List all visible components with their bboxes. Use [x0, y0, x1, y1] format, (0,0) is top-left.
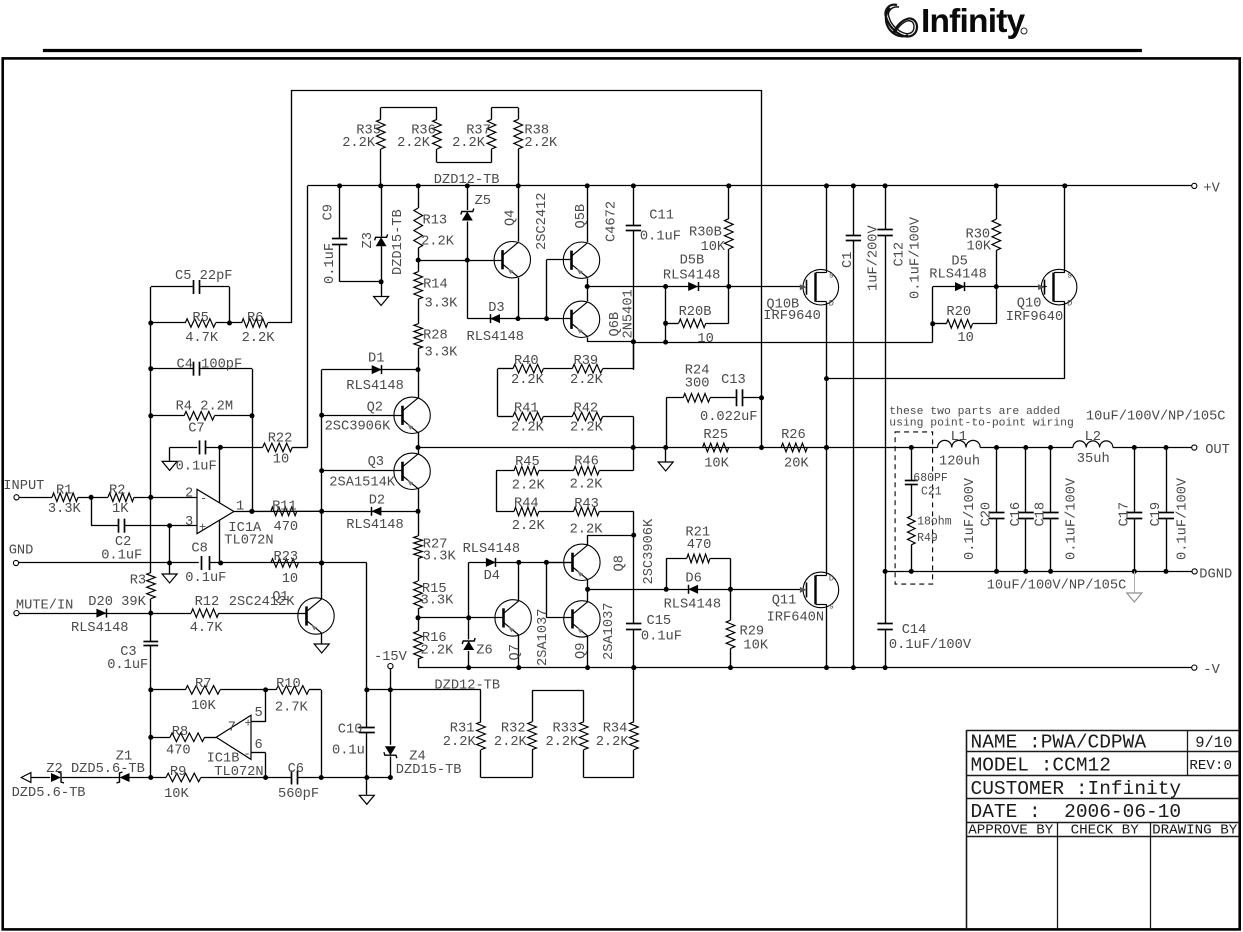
svg-text:C12: C12: [893, 242, 908, 267]
svg-text:R7: R7: [195, 677, 211, 692]
svg-text:3: 3: [185, 515, 193, 530]
svg-text:L1: L1: [951, 430, 967, 445]
svg-text:C14: C14: [902, 623, 927, 638]
svg-text:2.2K: 2.2K: [512, 519, 546, 534]
svg-text:C13: C13: [721, 373, 746, 388]
svg-text:0.1uF/100V: 0.1uF/100V: [963, 477, 978, 560]
svg-text:NAME :PWA/CDPWA: NAME :PWA/CDPWA: [971, 731, 1147, 753]
svg-text:C20: C20: [980, 502, 995, 527]
svg-text:RLS4148: RLS4148: [929, 268, 987, 283]
svg-text:+: +: [245, 717, 252, 731]
svg-text:C18: C18: [1034, 502, 1049, 527]
svg-text:120uh: 120uh: [939, 455, 980, 470]
svg-text:Q2: Q2: [367, 401, 383, 416]
svg-text:-15V: -15V: [374, 650, 408, 665]
svg-text:560pF: 560pF: [278, 787, 319, 802]
svg-text:3.3K: 3.3K: [421, 593, 455, 608]
svg-text:Q4: Q4: [504, 210, 519, 226]
svg-text:R1: R1: [56, 484, 72, 499]
svg-text:35uh: 35uh: [1077, 452, 1110, 467]
svg-text:0.1uF: 0.1uF: [107, 658, 148, 673]
svg-text:D6: D6: [685, 572, 701, 587]
svg-text:2SC3906K: 2SC3906K: [642, 518, 657, 584]
svg-text:R20: R20: [946, 305, 971, 320]
svg-text:+: +: [199, 521, 206, 535]
svg-text:C6: C6: [288, 762, 304, 777]
svg-text:C10: C10: [338, 722, 363, 737]
svg-text:RLS4148: RLS4148: [663, 268, 721, 283]
svg-text:680PF: 680PF: [913, 472, 948, 485]
svg-text:0.1uF: 0.1uF: [640, 230, 681, 245]
svg-text:C15: C15: [647, 614, 672, 629]
svg-text:Q11: Q11: [772, 594, 797, 609]
svg-text:Q9: Q9: [574, 643, 589, 659]
svg-text:1: 1: [236, 500, 244, 515]
svg-text:2.2K: 2.2K: [512, 479, 546, 494]
svg-text:-V: -V: [1203, 663, 1220, 678]
svg-text:D5B: D5B: [680, 254, 705, 269]
svg-text:10uF/100V/NP/105C: 10uF/100V/NP/105C: [987, 579, 1127, 594]
svg-text:6: 6: [255, 738, 263, 753]
svg-text:3.3K: 3.3K: [425, 346, 459, 361]
svg-text:C8: C8: [191, 542, 207, 557]
svg-text:RLS4148: RLS4148: [346, 518, 404, 533]
svg-text:1uF/200V: 1uF/200V: [867, 225, 882, 291]
svg-text:R4 2.2M: R4 2.2M: [176, 399, 234, 414]
svg-text:10: 10: [282, 572, 298, 587]
svg-text:R43: R43: [574, 497, 599, 512]
svg-text:R26: R26: [781, 428, 806, 443]
svg-text:RLS4148: RLS4148: [467, 330, 525, 345]
svg-text:10K: 10K: [743, 639, 768, 654]
svg-text:2.2K: 2.2K: [242, 331, 276, 346]
svg-text:C4672: C4672: [605, 201, 620, 242]
svg-text:s: s: [1067, 271, 1072, 281]
svg-text:7: 7: [228, 720, 236, 735]
svg-text:R30B: R30B: [689, 225, 722, 240]
svg-text:10K: 10K: [164, 787, 189, 802]
svg-text:10: 10: [273, 453, 289, 468]
svg-text:2.2K: 2.2K: [511, 421, 545, 436]
svg-text:2.2K: 2.2K: [596, 735, 630, 750]
svg-text:IRF9640: IRF9640: [763, 309, 821, 324]
svg-text:R6: R6: [247, 311, 263, 326]
svg-text:9/10: 9/10: [1195, 734, 1232, 752]
svg-text:R23: R23: [274, 550, 299, 565]
svg-text:Q8: Q8: [613, 555, 628, 571]
svg-text:2: 2: [185, 486, 193, 501]
svg-text:D3: D3: [488, 301, 504, 316]
svg-text:R42: R42: [574, 402, 599, 417]
svg-text:D20 39K: D20 39K: [88, 595, 146, 610]
svg-text:-: -: [244, 747, 251, 761]
svg-text:3.3K: 3.3K: [48, 502, 82, 517]
svg-text:Z2 DZD5.6-TB: Z2 DZD5.6-TB: [46, 762, 145, 777]
svg-text:10K: 10K: [701, 240, 726, 255]
svg-text:s: s: [829, 271, 834, 281]
svg-text:INPUT: INPUT: [3, 479, 44, 494]
svg-text:C7: C7: [188, 421, 204, 436]
svg-text:0.1uF: 0.1uF: [185, 571, 226, 586]
svg-text:CHECK BY: CHECK BY: [1071, 823, 1140, 839]
svg-text:0.1uF: 0.1uF: [176, 459, 217, 474]
svg-text:D: D: [829, 573, 834, 583]
svg-text:2.2K: 2.2K: [511, 373, 545, 388]
svg-text:0.022uF: 0.022uF: [700, 410, 758, 425]
svg-text:Z6: Z6: [476, 644, 492, 659]
svg-text:RLS4148: RLS4148: [71, 621, 129, 636]
svg-text:s: s: [829, 601, 834, 611]
svg-text:C1: C1: [841, 252, 856, 268]
svg-text:DRAWING BY: DRAWING BY: [1152, 823, 1238, 839]
svg-text:R49: R49: [917, 532, 938, 545]
svg-text:R2: R2: [109, 484, 125, 499]
svg-text:DGND: DGND: [1199, 568, 1232, 583]
svg-text:2SC3906K: 2SC3906K: [325, 420, 391, 435]
svg-text:0.1uF/100V: 0.1uF/100V: [1176, 477, 1191, 560]
svg-text:D2: D2: [369, 493, 385, 508]
svg-text:2.2K: 2.2K: [452, 136, 486, 151]
svg-text:2SC2412: 2SC2412: [535, 193, 550, 251]
svg-text:R14: R14: [423, 278, 448, 293]
svg-text:10K: 10K: [191, 699, 216, 714]
svg-text:4.7K: 4.7K: [185, 331, 219, 346]
svg-text:R44: R44: [514, 497, 539, 512]
svg-text:D4: D4: [484, 569, 500, 584]
svg-text:2.2K: 2.2K: [570, 478, 604, 493]
svg-text:Q7: Q7: [508, 644, 523, 660]
svg-text:RLS4148: RLS4148: [346, 379, 404, 394]
svg-text:2.2K: 2.2K: [570, 373, 604, 388]
svg-text:18ohm: 18ohm: [917, 516, 952, 529]
svg-text:2.7K: 2.7K: [275, 700, 309, 715]
svg-text:C21: C21: [921, 486, 942, 499]
svg-text:DATE : 2006-06-10: DATE : 2006-06-10: [971, 801, 1182, 823]
svg-text:2.2K: 2.2K: [546, 735, 580, 750]
svg-text:MODEL :CCM12: MODEL :CCM12: [971, 754, 1111, 776]
svg-text:R28: R28: [423, 328, 448, 343]
svg-text:R45: R45: [515, 455, 540, 470]
svg-text:R25: R25: [703, 428, 728, 443]
svg-text:470: 470: [274, 520, 299, 535]
svg-text:REV:0: REV:0: [1189, 758, 1232, 774]
svg-text:2.2K: 2.2K: [342, 136, 376, 151]
svg-text:2.2K: 2.2K: [421, 235, 455, 250]
svg-text:C5 22pF: C5 22pF: [175, 269, 233, 284]
svg-text:2.2K: 2.2K: [421, 644, 455, 659]
svg-text:R12: R12: [195, 595, 220, 610]
svg-text:IRF640N: IRF640N: [767, 610, 825, 625]
svg-text:R46: R46: [574, 455, 599, 470]
svg-text:0.1uF: 0.1uF: [101, 549, 142, 564]
svg-text:CUSTOMER :Infinity: CUSTOMER :Infinity: [971, 778, 1182, 800]
svg-text:DZD5.6-TB: DZD5.6-TB: [12, 786, 86, 801]
svg-text:C4 100pF: C4 100pF: [177, 357, 243, 372]
svg-text:C9: C9: [322, 204, 337, 220]
svg-text:3.3K: 3.3K: [423, 550, 457, 565]
svg-text:DZD12-TB: DZD12-TB: [434, 678, 500, 693]
svg-text:R22: R22: [268, 432, 293, 447]
svg-text:2.2K: 2.2K: [494, 735, 528, 750]
svg-text:10: 10: [957, 331, 973, 346]
svg-text:R20B: R20B: [679, 305, 712, 320]
svg-text:Q3: Q3: [368, 455, 384, 470]
svg-text:Q5B: Q5B: [574, 204, 589, 229]
svg-text:D1: D1: [368, 352, 384, 367]
svg-text:3.3K: 3.3K: [425, 297, 459, 312]
svg-text:0.1uF/100V: 0.1uF/100V: [909, 216, 924, 299]
svg-text:Q1: Q1: [272, 590, 288, 605]
svg-text:0.1uF/100V: 0.1uF/100V: [889, 638, 972, 653]
svg-text:10: 10: [697, 332, 713, 347]
svg-text:these two parts are added: these two parts are added: [889, 406, 1060, 418]
svg-text:2.2K: 2.2K: [443, 735, 477, 750]
svg-text:2SA1037: 2SA1037: [602, 603, 617, 661]
svg-text:R11: R11: [272, 499, 297, 514]
svg-text:-: -: [200, 492, 207, 506]
svg-text:C16: C16: [1009, 502, 1024, 527]
svg-text:R9: R9: [170, 765, 186, 780]
svg-text:R8: R8: [172, 725, 188, 740]
svg-text:4.7K: 4.7K: [190, 621, 224, 636]
svg-text:10uF/100V/NP/105C: 10uF/100V/NP/105C: [1086, 410, 1226, 425]
svg-text:R29: R29: [740, 624, 765, 639]
svg-text:IRF9640: IRF9640: [1006, 310, 1063, 325]
svg-text:0.1uF: 0.1uF: [641, 630, 682, 645]
svg-text:2SA1514K: 2SA1514K: [329, 475, 395, 490]
svg-text:R10: R10: [276, 677, 301, 692]
svg-text:GND: GND: [9, 544, 34, 559]
svg-text:2N5401: 2N5401: [622, 289, 637, 338]
svg-text:Z3: Z3: [361, 232, 376, 248]
svg-text:470: 470: [166, 744, 191, 759]
svg-text:OUT: OUT: [1205, 443, 1230, 458]
svg-text:RLS4148: RLS4148: [664, 597, 722, 612]
svg-text:10K: 10K: [704, 457, 729, 472]
svg-text:0.1u: 0.1u: [332, 744, 365, 759]
svg-text:RLS4148: RLS4148: [463, 542, 520, 557]
svg-text:10K: 10K: [967, 239, 992, 254]
svg-text:DZD15-TB: DZD15-TB: [391, 209, 406, 275]
svg-text:R40: R40: [514, 354, 539, 369]
svg-text:L2: L2: [1085, 430, 1101, 445]
svg-text:DZD15-TB: DZD15-TB: [396, 763, 462, 778]
svg-text:2.2K: 2.2K: [570, 421, 604, 436]
svg-text:Infinity: Infinity: [921, 3, 1026, 40]
svg-text:D: D: [1067, 299, 1072, 309]
svg-text:470: 470: [687, 538, 712, 553]
svg-text:R41: R41: [514, 402, 539, 417]
svg-text:5: 5: [255, 706, 263, 721]
svg-text:20K: 20K: [784, 457, 809, 472]
svg-text:MUTE/IN: MUTE/IN: [16, 599, 74, 614]
svg-text:R3: R3: [130, 574, 146, 589]
svg-text:R5: R5: [192, 311, 208, 326]
svg-text:APPROVE BY: APPROVE BY: [968, 823, 1054, 839]
svg-text:1K: 1K: [112, 502, 129, 517]
svg-text:using point-to-point wiring: using point-to-point wiring: [889, 418, 1074, 430]
svg-text:R39: R39: [574, 354, 599, 369]
svg-text:TL072N: TL072N: [224, 534, 273, 549]
svg-text:2.2K: 2.2K: [524, 136, 558, 151]
svg-text:C11: C11: [649, 209, 674, 224]
svg-text:0.1uF: 0.1uF: [323, 243, 338, 284]
svg-text:0.1uF/100V: 0.1uF/100V: [1065, 477, 1080, 560]
svg-text:300: 300: [685, 376, 710, 391]
svg-text:C19: C19: [1149, 502, 1164, 527]
svg-text:+V: +V: [1203, 182, 1220, 197]
svg-text:2.2K: 2.2K: [397, 136, 431, 151]
svg-text:Z5: Z5: [475, 194, 491, 209]
svg-text:C17: C17: [1117, 502, 1132, 527]
svg-text:R13: R13: [423, 214, 448, 229]
svg-text:D: D: [829, 299, 834, 309]
